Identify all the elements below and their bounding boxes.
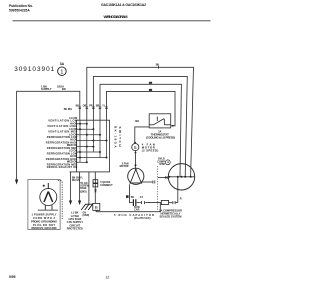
svg-text:5: 5 (134, 145, 137, 150)
tick label on bus line 4 (149, 89, 152, 91)
svg-text:GY: GY (140, 197, 144, 199)
svg-text:REMOVE GROUND: REMOVE GROUND (32, 226, 57, 230)
svg-text:309103901: 309103901 (14, 66, 54, 73)
svg-text:BK: BK (94, 189, 97, 193)
svg-text:MOTOR: MOTOR (120, 165, 129, 168)
bus line 4 to thermostat (107, 91, 176, 125)
compressor terminal chord (168, 176, 194, 178)
svg-text:(2 SPEED): (2 SPEED) (142, 148, 159, 152)
bus line 3 (100, 84, 181, 176)
switch box bottom extension (70, 171, 77, 173)
switch contact rows (77, 124, 107, 163)
svg-text:BK: BK (131, 197, 135, 199)
thermostat box (149, 114, 171, 128)
header publication no (9, 4, 33, 12)
R connector box (93, 203, 100, 210)
compressor label (159, 209, 182, 219)
svg-text:REFRIG EXHAUST ON: REFRIG EXHAUST ON (47, 165, 78, 169)
fan motor winding triangle (130, 169, 141, 183)
thermostat right pin terminal (172, 125, 174, 127)
switch terminal ticks on five verticals (79, 107, 108, 109)
svg-text:BK-18GA: BK-18GA (114, 126, 118, 148)
svg-text:BK: BK (156, 64, 160, 67)
compressor left wire with connector (158, 177, 169, 179)
run capacitor plates (132, 199, 134, 206)
svg-text:WH GN: WH GN (72, 180, 80, 182)
svg-text:BK WH: BK WH (64, 108, 72, 111)
svg-text:R: R (95, 206, 99, 211)
plug blades (44, 192, 48, 203)
svg-text:SEALED SYSTEM: SEALED SYSTEM (160, 215, 182, 219)
svg-text:WIRING DIAGRAM: WIRING DIAGRAM (104, 15, 128, 19)
mode switch box (77, 120, 110, 172)
svg-text:BK: BK (135, 119, 139, 123)
overload protector box (161, 200, 168, 204)
tick and label on bus line 1 (158, 66, 160, 69)
arrow wire 2 below switch (79, 172, 81, 202)
power cord arrowhead (15, 180, 18, 185)
bottom long wire (96, 203, 160, 212)
arrow wire 1 below switch (70, 172, 72, 202)
svg-text:SWITCH: SWITCH (118, 127, 122, 147)
switch junction dots (79, 123, 108, 164)
svg-text:BASE: BASE (80, 187, 87, 190)
callout circle 5 on wire (132, 144, 139, 151)
svg-text:MTR: MTR (159, 163, 165, 166)
bus line 1 outermost (87, 67, 194, 176)
svg-text:PLUG DO NOT: PLUG DO NOT (33, 223, 55, 227)
compressor terminal dots (181, 176, 183, 178)
fan motor circle (128, 168, 144, 184)
thermostat left wire to node (135, 127, 149, 143)
fuse callout circle 1 (58, 62, 67, 76)
compressor bottom wire (177, 177, 179, 203)
svg-text:(GND): (GND) (83, 215, 90, 217)
svg-text:PROTECTED: PROTECTED (67, 227, 83, 231)
inline connector on wire C (93, 180, 98, 183)
plug legs and base (44, 205, 46, 210)
svg-text:5/95: 5/95 (9, 275, 16, 279)
svg-text:1: 1 (60, 70, 63, 76)
svg-text:R: R (180, 198, 182, 201)
wire color labels at switch terminals (76, 104, 106, 107)
svg-text:BR: BR (96, 104, 100, 107)
svg-text:PRONG GROUNDING: PRONG GROUNDING (31, 219, 57, 223)
fan motor terminal dot (135, 164, 137, 166)
compressor side label with callout 4 (157, 158, 165, 167)
power plug box (28, 180, 60, 230)
svg-text:CORD WITH 3: CORD WITH 3 (33, 216, 56, 220)
svg-text:12: 12 (106, 276, 110, 280)
svg-text:CAP.: CAP. (134, 209, 140, 212)
plug text (31, 213, 57, 231)
svg-text:5995504235A: 5995504235A (9, 8, 30, 12)
run capacitor right wire with connector (137, 202, 141, 204)
svg-text:4: 4 (167, 161, 169, 165)
svg-text:PR: PR (89, 104, 93, 107)
chassis ground symbol (81, 204, 92, 210)
svg-text:SUPPLY: SUPPLY (41, 87, 52, 91)
plug circle (40, 189, 57, 206)
svg-text:(15+370 VAC): (15+370 VAC) (134, 216, 151, 220)
plug stem (47, 183, 49, 189)
tick label on bus line 3 (149, 82, 152, 84)
switch column wires inside box (80, 120, 107, 162)
svg-text:GAC103K1A1 & GAC103K1A2: GAC103K1A1 & GAC103K1A2 (101, 3, 146, 7)
svg-text:BK: BK (62, 87, 66, 91)
fan motor left wire down to run capacitor (130, 184, 133, 202)
svg-text:(COOLING & LO PRESS): (COOLING & LO PRESS) (146, 136, 175, 140)
switch position labels (46, 116, 78, 169)
wire C from switch to R box (94, 172, 96, 204)
wire from callout to fan motor (135, 151, 137, 169)
svg-text:Publication No.: Publication No. (9, 4, 33, 8)
svg-text:OR: OR (83, 104, 87, 107)
thermostat contact symbol (149, 117, 171, 125)
svg-text:1 POWER SUPPLY: 1 POWER SUPPLY (32, 213, 57, 217)
bus line 2 (93, 76, 187, 176)
supply circuit text block (66, 211, 83, 231)
svg-text:YL: YL (102, 104, 106, 107)
overload right wire with connector to compressor (169, 202, 173, 204)
wire tick label (126, 195, 129, 198)
svg-text:(GND): (GND) (80, 192, 87, 194)
callout 5 side text (142, 142, 159, 152)
header rule (13, 20, 211, 22)
svg-text:3A: 3A (60, 62, 65, 66)
compressor circle (168, 164, 194, 190)
dashed partition line (156, 166, 158, 211)
fan motor right wire to connector (141, 181, 152, 183)
ground wire (88, 172, 90, 204)
power cord wire from plug up and across (17, 91, 80, 181)
svg-text:BK: BK (76, 104, 80, 107)
svg-text:CONNECT: CONNECT (100, 184, 113, 187)
power cord dashed path (58, 181, 62, 220)
